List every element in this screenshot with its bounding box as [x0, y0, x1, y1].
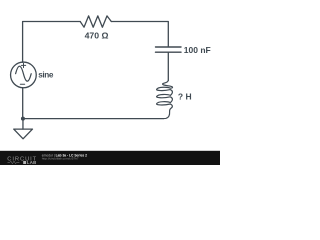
svg-text:? H: ? H — [178, 92, 192, 102]
wire bottom — [23, 118, 163, 120]
svg-text:LAB: LAB — [27, 160, 37, 165]
capacitor C1 plates — [156, 47, 182, 52]
svg-text:100 nF: 100 nF — [184, 45, 211, 55]
plus sign — [21, 63, 25, 67]
svg-text:sine: sine — [38, 70, 54, 79]
ground stem — [22, 119, 24, 130]
minus sign — [20, 83, 24, 85]
ground symbol — [14, 129, 33, 139]
wire source-to-junction — [22, 88, 24, 119]
inductor L1 coil — [157, 80, 173, 118]
sine wave symbol — [16, 66, 32, 81]
junction dot — [21, 117, 25, 121]
svg-text:http://circuitlab.com/c/57h7: http://circuitlab.com/c/57h7 — [42, 157, 79, 161]
voltage source V1 circle — [11, 62, 37, 88]
svg-text:470 Ω: 470 Ω — [85, 30, 109, 40]
resistor R1 — [80, 16, 111, 27]
footer logo block — [23, 161, 26, 164]
footer logo resistor glyph — [8, 161, 20, 164]
footer bar — [0, 151, 220, 165]
wire top-left — [23, 22, 81, 63]
wire cap-to-inductor — [167, 53, 169, 81]
wire top-right — [111, 22, 168, 47]
